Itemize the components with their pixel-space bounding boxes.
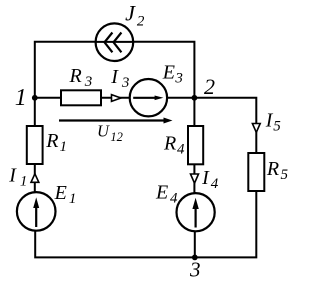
wire: node1 to node2 to right rail down to R5 (35, 98, 256, 153)
wire: node2 down through R4 to E4, E4 to node3 (193, 98, 195, 258)
current arrow I1 (31, 174, 39, 183)
current source J2 (96, 23, 134, 61)
current arrow I4 (191, 174, 199, 183)
current arrow I3 (112, 95, 121, 102)
resistor R4 (188, 126, 203, 164)
wire: node1 down through R1 to E1 (34, 98, 36, 192)
node 2 (192, 95, 198, 101)
svg-text:3: 3 (189, 258, 201, 282)
resistor R1 (27, 126, 43, 164)
voltage arrow U12 (59, 118, 173, 124)
node 3 (192, 255, 198, 261)
resistor R5 (248, 153, 264, 191)
voltage source E1 (17, 192, 56, 231)
wire: bottom rail from E1 to node3 to right rail (35, 191, 256, 257)
svg-text:1: 1 (15, 85, 27, 111)
svg-text:2: 2 (204, 74, 215, 99)
wire: node1 up, across top, down to node2 (35, 42, 195, 98)
node 1 (32, 95, 38, 101)
voltage source E3 (130, 79, 167, 116)
current arrow I5 (252, 124, 260, 133)
voltage source E4 (177, 193, 215, 231)
resistor R3 (61, 90, 101, 105)
